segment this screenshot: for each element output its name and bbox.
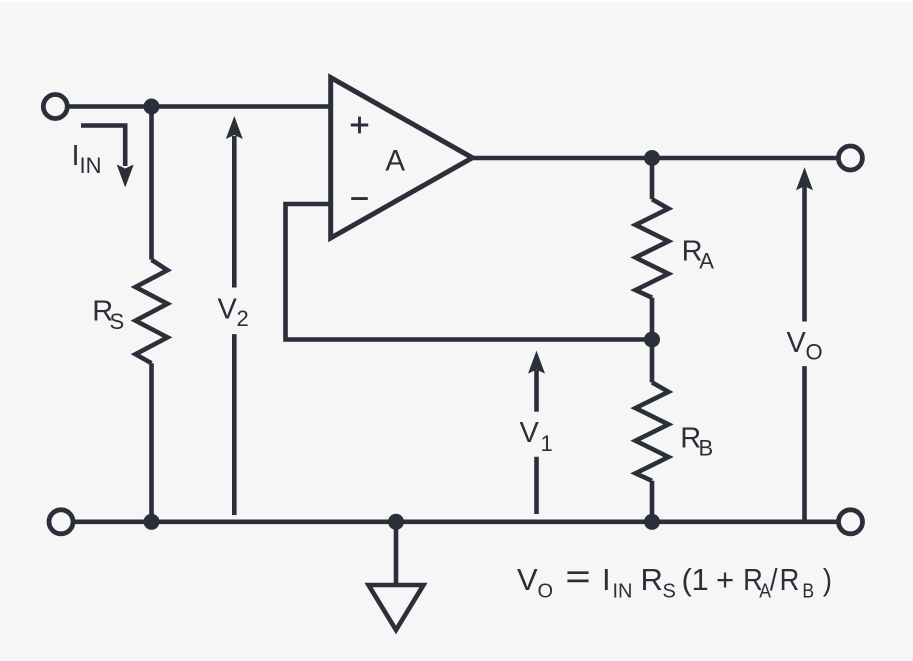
svg-text:+: + [716,562,734,597]
svg-text:B: B [802,579,814,601]
svg-text:V: V [520,417,540,449]
svg-text:O: O [806,340,823,365]
svg-text:B: B [699,436,714,461]
svg-text:V: V [218,294,238,326]
svg-text:O: O [538,581,554,603]
svg-text:A: A [385,145,405,178]
svg-text:V: V [787,327,807,359]
svg-text:I: I [602,562,611,597]
svg-text:IN: IN [613,581,633,603]
svg-text:R: R [641,562,663,597]
svg-text:I: I [72,140,80,172]
svg-text:/: / [770,563,778,597]
svg-text:V: V [517,562,538,597]
svg-text:2: 2 [237,306,249,331]
svg-text:1: 1 [541,431,553,456]
svg-text:A: A [699,249,714,274]
svg-text:IN: IN [80,153,102,178]
svg-text:1: 1 [692,562,709,597]
svg-text:): ) [823,563,832,597]
svg-text:S: S [110,309,125,334]
svg-text:S: S [663,581,676,603]
svg-text:R: R [780,563,800,597]
